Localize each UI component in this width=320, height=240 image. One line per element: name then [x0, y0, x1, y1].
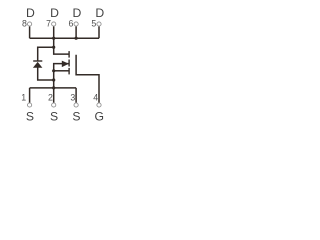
- pin 8 terminal circle: [28, 22, 32, 26]
- junction drain bus pin7: [52, 37, 55, 40]
- pin 1 terminal circle: [28, 103, 32, 107]
- gate wire to pin4: [76, 55, 99, 103]
- svg-text:G: G: [95, 109, 104, 123]
- diode D1 cathode bar: [33, 60, 42, 62]
- wire diode branch: [38, 47, 54, 61]
- svg-text:1: 1: [21, 92, 26, 102]
- pin 3 terminal circle: [74, 103, 78, 107]
- transistor Q1 channel drain stub: [68, 51, 70, 58]
- svg-text:D: D: [72, 6, 81, 20]
- wire source drop: [54, 64, 69, 88]
- junction source bus pin2: [52, 86, 55, 89]
- svg-text:2: 2: [48, 92, 53, 102]
- svg-text:4: 4: [93, 92, 98, 102]
- wire pin1 to source bus: [29, 88, 31, 103]
- pin 7 terminal circle: [52, 22, 56, 26]
- wire pin5 to drain bus: [98, 26, 100, 38]
- svg-text:8: 8: [22, 19, 27, 29]
- svg-text:5: 5: [91, 19, 96, 29]
- junction diode branch: [52, 46, 55, 49]
- wire source bus: [30, 87, 77, 89]
- svg-text:D: D: [50, 6, 59, 20]
- wire pin3 to source bus: [75, 88, 77, 103]
- svg-text:D: D: [26, 6, 35, 20]
- wire pin2 to source bus: [53, 88, 55, 103]
- pin 6 terminal circle: [74, 22, 78, 26]
- wire diode anode link: [38, 67, 54, 80]
- wire drain drop: [54, 38, 69, 54]
- svg-text:S: S: [72, 109, 80, 123]
- svg-text:D: D: [95, 6, 104, 20]
- svg-text:6: 6: [68, 19, 73, 29]
- transistor Q1 channel source stub: [68, 68, 70, 75]
- drain bus: [30, 37, 99, 39]
- wire pin7 to drain bus: [53, 26, 55, 38]
- transistor Q1 channel body stub: [68, 60, 70, 67]
- transistor Q1 body arrow: [62, 61, 69, 68]
- diode D1 triangle: [33, 62, 43, 68]
- svg-text:S: S: [26, 109, 34, 123]
- junction drain bus pin6: [75, 37, 78, 40]
- junction source stub: [52, 69, 55, 72]
- wire pin6 to drain bus: [75, 26, 77, 38]
- wire pin8 to drain bus: [29, 26, 31, 38]
- junction diode anode link: [52, 78, 55, 81]
- svg-text:7: 7: [46, 19, 51, 29]
- svg-text:3: 3: [70, 92, 75, 102]
- wire source stub lead: [54, 70, 69, 72]
- pin 5 terminal circle: [97, 22, 101, 26]
- pin 4 terminal circle: [97, 103, 101, 107]
- svg-text:S: S: [50, 109, 58, 123]
- pin 2 terminal circle: [52, 103, 56, 107]
